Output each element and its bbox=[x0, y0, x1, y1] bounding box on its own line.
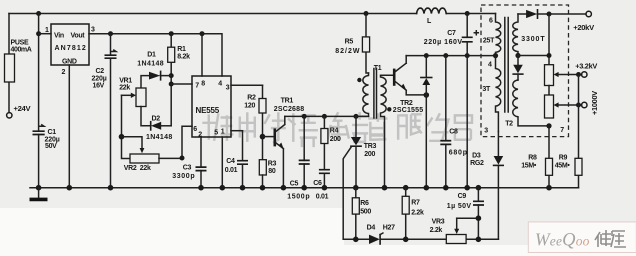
svg-text:C6: C6 bbox=[313, 180, 322, 187]
T2 primary 3T bbox=[496, 56, 501, 132]
potentiometer VR1 22k bbox=[122, 88, 147, 107]
svg-text:500: 500 bbox=[360, 209, 371, 216]
wire pin8 drop bbox=[201, 34, 203, 76]
svg-text:25T: 25T bbox=[483, 38, 495, 45]
resistor R3 80 bbox=[259, 160, 266, 188]
resistor R2 120 bbox=[259, 85, 266, 160]
svg-text:3: 3 bbox=[226, 85, 230, 92]
svg-text:R3: R3 bbox=[268, 161, 277, 168]
svg-text:220µ 160V: 220µ 160V bbox=[424, 39, 463, 46]
svg-text:22k: 22k bbox=[140, 165, 151, 172]
junction pin1 node bbox=[36, 31, 41, 36]
junction bus pin2 bbox=[67, 185, 73, 191]
capacitor C6 bbox=[319, 170, 330, 188]
svg-text:Vout: Vout bbox=[71, 33, 86, 40]
svg-text:VR2: VR2 bbox=[124, 165, 137, 172]
svg-text:680p: 680p bbox=[449, 150, 467, 157]
junction bus R7 bbox=[403, 185, 409, 191]
terminal +24V bbox=[7, 113, 12, 118]
capacitor C1 bbox=[33, 125, 45, 135]
svg-text:+24V: +24V bbox=[14, 104, 32, 113]
diode D6 HV bbox=[518, 10, 586, 18]
wire pin1 stub to C4 bbox=[231, 130, 243, 132]
regulator U AN7812 bbox=[51, 24, 89, 65]
junction VR2 node bbox=[119, 134, 125, 140]
transformer T1 bbox=[357, 69, 394, 188]
ground symbol bbox=[30, 188, 48, 200]
fuse PUSE 400mA bbox=[5, 54, 15, 82]
svg-text:4: 4 bbox=[488, 62, 492, 69]
svg-text:2SC1555: 2SC1555 bbox=[393, 107, 423, 114]
junction D1 cathode bbox=[169, 73, 174, 78]
svg-text:120: 120 bbox=[244, 103, 255, 110]
wire TR1 collector node bbox=[285, 115, 369, 117]
diode damper bbox=[421, 56, 432, 95]
svg-text:7: 7 bbox=[560, 127, 564, 134]
junction bus C1 bbox=[36, 185, 42, 191]
junction bus TR3 R6 bbox=[353, 185, 359, 191]
junction divider mid tap bbox=[547, 53, 552, 58]
svg-text:2SC2688: 2SC2688 bbox=[274, 106, 304, 113]
resistor R9 45M bbox=[575, 75, 582, 188]
junction divider top bbox=[547, 12, 552, 17]
junction pin7 bbox=[169, 82, 174, 87]
junction bus TR1 emitter bbox=[281, 185, 287, 191]
wire divider middle bbox=[548, 86, 550, 96]
svg-text:3300T: 3300T bbox=[521, 36, 545, 43]
svg-text:R9: R9 bbox=[559, 155, 568, 162]
resistor R7 2.2k bbox=[402, 188, 409, 240]
svg-text:+3.2kV: +3.2kV bbox=[575, 62, 597, 71]
wire pin1 column bbox=[221, 137, 223, 188]
T2 secondary 3300T upper bbox=[513, 14, 518, 56]
junction top rail / input column bbox=[36, 11, 41, 16]
svg-text:0.01: 0.01 bbox=[225, 167, 238, 174]
wire left input drop bbox=[8, 14, 10, 113]
svg-text:2.2k: 2.2k bbox=[430, 227, 443, 234]
junction TR1 base node bbox=[260, 134, 266, 140]
junction C7 bottom bbox=[465, 53, 470, 58]
diode D1 1N4148 bbox=[141, 71, 171, 88]
svg-text:D2: D2 bbox=[152, 115, 161, 122]
svg-text:TR2: TR2 bbox=[400, 100, 413, 107]
svg-text:D3: D3 bbox=[472, 153, 481, 160]
svg-text:R5: R5 bbox=[345, 38, 354, 45]
svg-text:3T: 3T bbox=[482, 86, 491, 93]
svg-text:C2: C2 bbox=[96, 68, 105, 75]
junction bus C5 bbox=[301, 185, 307, 191]
svg-text:+1000V: +1000V bbox=[590, 91, 599, 115]
wire main ground bus bbox=[30, 187, 579, 189]
capacitor C8 680p bbox=[440, 141, 451, 145]
svg-text:80: 80 bbox=[268, 168, 276, 175]
T2 primary 25T bbox=[496, 14, 501, 56]
wire VR1 bottom to D2 bbox=[141, 107, 150, 126]
junction R5 top bbox=[364, 11, 369, 16]
svg-text:H27: H27 bbox=[383, 225, 395, 232]
svg-text:2.2k: 2.2k bbox=[411, 210, 424, 217]
terminal +20kV bbox=[586, 11, 591, 16]
junction bottom R6 bbox=[353, 237, 359, 243]
svg-text:R1: R1 bbox=[177, 46, 186, 53]
svg-text:2: 2 bbox=[62, 69, 66, 76]
diode D2 1N4148 bbox=[151, 122, 172, 130]
junction L right / C7 top bbox=[465, 11, 470, 16]
junction C9 VR3 bbox=[476, 215, 482, 221]
resistor R5 82/2W bbox=[362, 14, 369, 74]
terminal +3.2kV bbox=[582, 72, 587, 77]
svg-text:C8: C8 bbox=[449, 129, 458, 136]
svg-text:VR1: VR1 bbox=[119, 77, 132, 84]
resistor R6 500 bbox=[352, 188, 359, 240]
junction TR3 anode bbox=[354, 114, 359, 119]
diode D4 H27 bbox=[369, 233, 383, 244]
svg-text:PUSE: PUSE bbox=[11, 40, 29, 47]
junction bus C3 bbox=[198, 185, 204, 191]
svg-text:45M•: 45M• bbox=[555, 163, 571, 170]
junction bus C6 bbox=[322, 185, 328, 191]
capacitor C7 220u160V bbox=[462, 31, 479, 42]
potentiometer VR3 2.2k bbox=[446, 218, 478, 243]
thyristor TR3 200 bbox=[343, 116, 361, 239]
svg-text:D4: D4 bbox=[367, 225, 376, 232]
junction bus C8 bbox=[443, 185, 449, 191]
transistor Q TR1 2SC2688 bbox=[263, 116, 285, 187]
svg-text:AN7812: AN7812 bbox=[55, 45, 86, 52]
svg-text:1µ 50V: 1µ 50V bbox=[447, 203, 472, 210]
resistor R1 bbox=[168, 34, 175, 126]
junction bottom R7 bbox=[403, 237, 409, 243]
junction R9 top bbox=[576, 72, 581, 77]
IC U1 NE555 bbox=[192, 76, 231, 137]
terminal +1000V bbox=[582, 102, 587, 107]
wire +12V rail bbox=[89, 34, 222, 76]
capacitor C3 bbox=[196, 167, 207, 171]
wire pin3 output stub bbox=[231, 84, 263, 86]
capacitor C9 1u50V bbox=[473, 201, 484, 205]
junction bus TR2 emitter bbox=[424, 185, 430, 191]
svg-text:WeeQoo: WeeQoo bbox=[535, 230, 590, 251]
svg-text:50V: 50V bbox=[45, 143, 57, 150]
svg-text:TR1: TR1 bbox=[281, 98, 294, 105]
svg-text:15M•: 15M• bbox=[521, 163, 537, 170]
svg-text:22k: 22k bbox=[119, 85, 130, 92]
junction bottom C9 bbox=[476, 237, 482, 243]
wire C8 column bbox=[445, 56, 447, 188]
svg-text:C9: C9 bbox=[458, 193, 467, 200]
junction VR2 pin6 bbox=[180, 156, 185, 161]
capacitor C5 bbox=[299, 160, 310, 164]
wiper 3.2kV tap bbox=[554, 72, 582, 77]
T2 secondary 3300T lower bbox=[513, 80, 549, 126]
diode D5 split bbox=[513, 56, 523, 81]
junction divider bottom bbox=[546, 123, 551, 128]
wire feedback bottom rail bbox=[343, 238, 498, 240]
wire VR1 wiper column bbox=[122, 95, 131, 158]
wire C2 column bbox=[110, 34, 112, 188]
wire TR2 emitter column bbox=[425, 95, 427, 188]
wire VR2 right to pin6 bbox=[159, 126, 192, 158]
wire collector pin4 rail bbox=[406, 55, 495, 57]
wire top rail left bbox=[9, 13, 496, 15]
wire pin7 stub bbox=[171, 83, 192, 85]
junction secondary mid bbox=[515, 53, 520, 58]
svg-text:C5: C5 bbox=[290, 181, 299, 188]
svg-text:Vin: Vin bbox=[54, 33, 64, 40]
svg-text:C7: C7 bbox=[447, 30, 456, 37]
wire C5 column bbox=[303, 116, 305, 187]
capacitor C4 bbox=[237, 161, 248, 165]
junction bus C7 bbox=[464, 185, 470, 191]
svg-text:T2: T2 bbox=[505, 121, 513, 128]
T2 core bbox=[505, 18, 508, 113]
junction primary tap pin4 bbox=[493, 53, 498, 58]
junction damper top bbox=[424, 53, 429, 58]
wire pin2 C3 column bbox=[200, 137, 202, 188]
svg-text:TR3: TR3 bbox=[364, 143, 377, 150]
svg-text:1: 1 bbox=[221, 129, 225, 136]
svg-text:+20kV: +20kV bbox=[573, 23, 595, 32]
svg-text:C3: C3 bbox=[183, 165, 192, 172]
svg-text:16V: 16V bbox=[93, 83, 105, 90]
svg-text:6: 6 bbox=[193, 126, 197, 133]
svg-text:4: 4 bbox=[218, 81, 222, 88]
junction R9 crossing bbox=[576, 103, 581, 108]
wire C7 column bbox=[466, 14, 468, 188]
svg-text:C4: C4 bbox=[226, 158, 235, 165]
svg-text:8.2k: 8.2k bbox=[177, 54, 190, 61]
junction C5 top bbox=[302, 114, 307, 119]
svg-text:R2: R2 bbox=[247, 95, 256, 102]
svg-text:6: 6 bbox=[489, 18, 493, 25]
junction pin8 drop bbox=[200, 31, 205, 36]
svg-text:R4: R4 bbox=[330, 128, 339, 135]
svg-text:200: 200 bbox=[330, 136, 341, 143]
resistor R4 200 bbox=[321, 116, 328, 169]
junction C8 top bbox=[443, 53, 448, 58]
junction bus C9 bbox=[476, 185, 482, 191]
transistor Q TR2 2SC1555 bbox=[394, 56, 426, 95]
resistor R8 15M bbox=[546, 126, 553, 188]
svg-text:220µ: 220µ bbox=[92, 76, 107, 83]
svg-text:NE555: NE555 bbox=[196, 106, 220, 115]
svg-text:1N4148: 1N4148 bbox=[137, 61, 163, 68]
svg-text:VR3: VR3 bbox=[432, 219, 445, 226]
svg-text:R6: R6 bbox=[360, 200, 369, 207]
svg-text:R8: R8 bbox=[528, 155, 537, 162]
svg-text:3: 3 bbox=[91, 26, 95, 33]
svg-text:200: 200 bbox=[364, 151, 375, 158]
wire C4 column bbox=[242, 131, 244, 188]
wire input column x38.6 bbox=[38, 14, 40, 188]
potentiometer VR2 22k bbox=[130, 154, 159, 163]
junction bus pin1 bbox=[220, 185, 226, 191]
weeqoo watermark box bbox=[528, 222, 636, 253]
transformer T2 dashed box bbox=[481, 5, 569, 137]
svg-text:1500p: 1500p bbox=[287, 193, 309, 200]
capacitor C2 bbox=[105, 50, 117, 58]
svg-text:400mA: 400mA bbox=[11, 47, 32, 54]
watermark hangzhou text (approximated glyph blocks) bbox=[202, 112, 472, 147]
wire pin2 ground column bbox=[68, 65, 70, 188]
svg-text:1N4148: 1N4148 bbox=[146, 134, 172, 141]
svg-text:RG2: RG2 bbox=[470, 160, 484, 167]
junction bus C4 bbox=[240, 185, 246, 191]
svg-text:5: 5 bbox=[214, 130, 218, 137]
wire C9 column bbox=[477, 188, 479, 240]
wire divider riser bbox=[518, 14, 549, 65]
svg-text:3300p: 3300p bbox=[172, 173, 194, 180]
wire pin1 stub bbox=[39, 33, 51, 35]
svg-text:1: 1 bbox=[45, 27, 49, 34]
resistor divider upper bbox=[545, 65, 554, 86]
inductor L bbox=[417, 8, 447, 13]
svg-text:8: 8 bbox=[201, 81, 205, 88]
wiper 1000V tap bbox=[554, 102, 582, 107]
wire VR2 wiper branch bbox=[122, 137, 145, 154]
junction bus C2 bbox=[108, 185, 114, 191]
diode D3 RG2 bbox=[494, 132, 504, 240]
svg-text:R7: R7 bbox=[411, 200, 420, 207]
junction bus R3 bbox=[260, 185, 266, 191]
junction bus R8 bbox=[546, 185, 552, 191]
svg-text:7: 7 bbox=[195, 83, 199, 90]
svg-text:D1: D1 bbox=[147, 52, 156, 59]
junction bus T1 bbox=[382, 185, 388, 191]
resistor divider lower bbox=[545, 95, 554, 118]
junction TR2 emitter node bbox=[424, 92, 430, 98]
svg-text:3: 3 bbox=[484, 128, 488, 135]
junction R4 top bbox=[322, 114, 327, 119]
junction C2 top bbox=[108, 31, 113, 36]
junction R1 top bbox=[169, 31, 174, 36]
svg-text:C1: C1 bbox=[48, 129, 57, 136]
svg-text:0.01: 0.01 bbox=[316, 194, 329, 201]
svg-text:T1: T1 bbox=[374, 65, 382, 72]
